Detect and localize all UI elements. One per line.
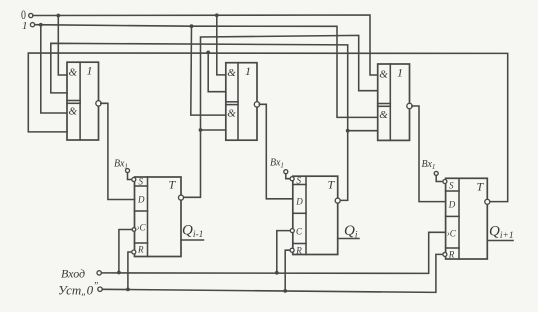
wire gate D3 output to trigger T3 D input xyxy=(412,106,446,202)
wire Vx1 terminal to T3 S input xyxy=(436,175,442,181)
svg-text:D: D xyxy=(448,200,456,210)
net Ust branch to T1 R input xyxy=(128,252,131,289)
wire gate D2 output to trigger T2 D input xyxy=(259,104,293,199)
net Ust branch to T2 R input xyxy=(285,250,289,291)
AOI gate D1 xyxy=(67,62,99,140)
svg-text:&: & xyxy=(227,108,236,120)
trigger T1 C input bubble xyxy=(132,228,136,232)
gate D2 output inversion bubble xyxy=(254,102,259,107)
svg-text:›C: ›C xyxy=(447,229,457,239)
trigger T1 xyxy=(135,177,182,257)
svg-text:Уст„0”: Уст„0” xyxy=(58,282,98,298)
gate D1 output inversion bubble xyxy=(96,101,101,106)
terminal Vhod (input) xyxy=(61,267,101,281)
junction Vhod net at T1 xyxy=(117,271,121,275)
net 1 main wire xyxy=(35,25,378,118)
svg-text:S: S xyxy=(449,181,454,191)
svg-text:S: S xyxy=(139,177,144,187)
junction Vhod net at T2 xyxy=(275,271,279,275)
wire net Q2-bar from trigger T2 output up and left to gate D1 xyxy=(51,43,348,200)
trigger T2 S input bubble xyxy=(290,177,294,181)
gate D3 output inversion bubble xyxy=(407,103,412,108)
net 0 branch wire to gate D2 xyxy=(217,15,226,75)
svg-text:1: 1 xyxy=(87,64,93,78)
wire T2 Q output stub xyxy=(338,238,359,240)
net Ust main wire to trigger T3 R input xyxy=(102,254,442,292)
junction on net 1 at D2 branch xyxy=(190,24,194,28)
wire T3 Q output stub xyxy=(487,240,513,242)
terminal Vx1 of trigger T2 xyxy=(270,158,288,174)
svg-text:&: & xyxy=(227,67,236,79)
AOI gate D2 xyxy=(226,63,257,141)
svg-text:D: D xyxy=(137,195,145,205)
net 0 main wire xyxy=(33,15,378,75)
junction Q1-bar net xyxy=(199,128,203,132)
svg-text:Вход: Вход xyxy=(61,267,85,281)
wire net Q1-bar from trigger T1 output up and to gate D3 xyxy=(183,35,378,197)
svg-text:R: R xyxy=(295,246,302,256)
trigger T3 inverse output bubble xyxy=(485,199,490,204)
terminal Vx1 of trigger T1 xyxy=(114,159,130,173)
AOI gate D3 xyxy=(378,64,410,140)
svg-text:&: & xyxy=(379,109,388,121)
trigger T2 xyxy=(293,176,338,256)
svg-text:R: R xyxy=(448,250,455,260)
trigger T1 R input bubble xyxy=(132,250,136,254)
junction on net 1 at D1 branch xyxy=(39,23,43,27)
junction on net 0 at D2 branch xyxy=(215,13,219,17)
net Vhod branch to T1 C input xyxy=(119,230,131,273)
terminal Ust 0 (set 0) xyxy=(58,282,102,298)
svg-text:1: 1 xyxy=(245,64,251,78)
junction Q3-bar net xyxy=(206,51,210,55)
input terminal 0 xyxy=(21,9,33,22)
trigger T3 xyxy=(446,178,488,259)
svg-text:R: R xyxy=(137,245,144,255)
svg-text:&: & xyxy=(69,106,78,118)
svg-text:1: 1 xyxy=(22,20,28,32)
trigger T3 S input bubble xyxy=(443,180,447,184)
terminal Vx1 of trigger T3 xyxy=(422,159,439,175)
wire gate D1 output to trigger T1 D input xyxy=(101,103,135,199)
net Vhod branch to T2 C input xyxy=(277,231,290,273)
trigger T1 inverse output bubble xyxy=(179,195,184,200)
trigger T1 S input bubble xyxy=(132,178,136,182)
wire branch Q2-bar to gate D3 lower input xyxy=(348,130,378,132)
wire branch Q3-bar to gate D2 upper input xyxy=(208,52,226,91)
trigger T3 R input bubble xyxy=(443,252,447,256)
trigger T2 C input bubble xyxy=(290,229,294,233)
wire Vx1 terminal to T1 S input xyxy=(128,173,131,180)
svg-text:D: D xyxy=(295,197,303,207)
svg-text:&: & xyxy=(379,69,388,81)
wire Vx1 terminal to T2 S input xyxy=(286,174,289,179)
junction on net 0 at D1 branch xyxy=(56,14,60,18)
trigger T2 R input bubble xyxy=(290,248,294,252)
net 1 branch wire to gate D1 xyxy=(41,25,67,113)
wire branch Q1-bar to gate D2 lower input xyxy=(201,129,226,131)
net 1 branch wire to gate D2 xyxy=(191,26,226,115)
wire net Q3-bar from trigger T3 output up and left to gate D1 xyxy=(28,53,507,202)
input terminal 1 xyxy=(22,20,35,32)
svg-text:C: C xyxy=(296,227,303,237)
svg-text:&: & xyxy=(69,67,78,79)
junction Ust net at T1 xyxy=(126,288,130,292)
trigger T2 inverse output bubble xyxy=(335,198,340,203)
svg-text:S: S xyxy=(297,176,302,186)
wire T1 Q output stub xyxy=(181,239,204,241)
svg-text:1: 1 xyxy=(397,66,403,80)
svg-text:›C: ›C xyxy=(137,223,147,233)
net 0 branch wire to gate D1 xyxy=(58,16,67,76)
junction Ust net at T2 xyxy=(283,289,287,293)
net Vhod main wire to trigger T3 C input xyxy=(101,232,445,273)
junction Q2-bar net xyxy=(346,129,350,133)
